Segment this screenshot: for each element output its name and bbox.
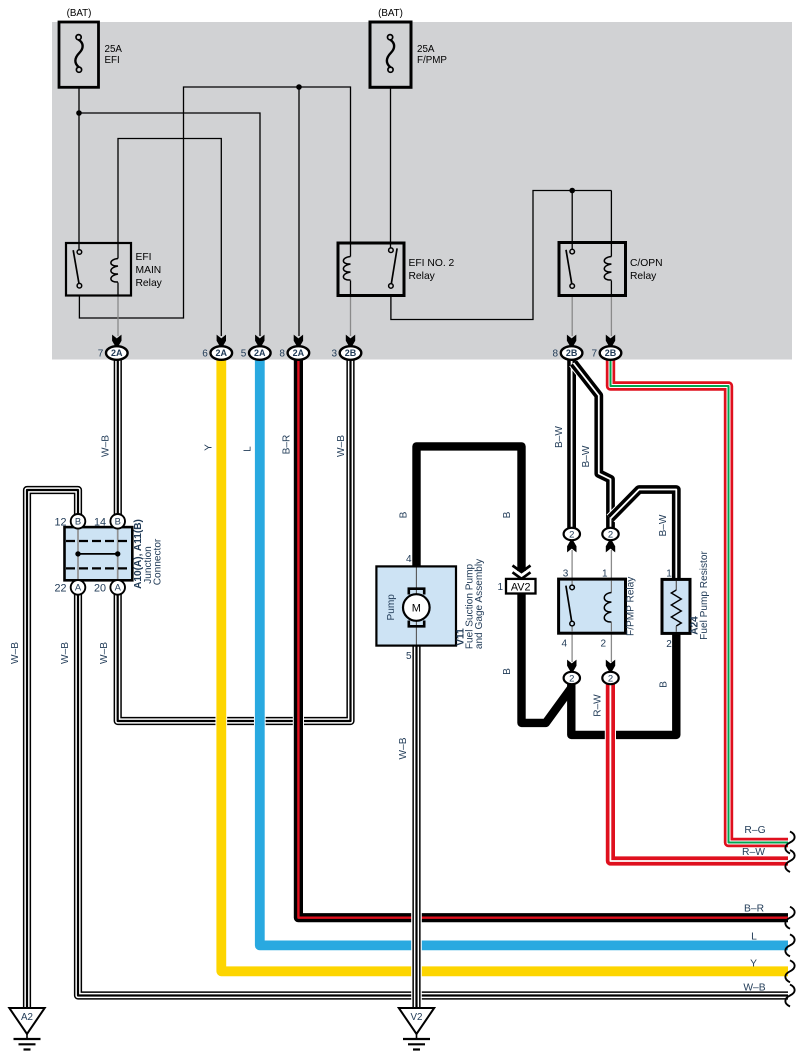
node C-OPN branch	[569, 188, 575, 194]
svg-text:R–G: R–G	[744, 825, 765, 836]
wire R-W from F/PMP relay pin 2	[610, 684, 788, 861]
svg-text:1: 1	[666, 569, 672, 580]
wire B from pump pin 4 to AV2	[417, 446, 522, 571]
svg-text:12: 12	[54, 517, 66, 529]
connector pin 7 2A (EFI MAIN out)	[98, 335, 128, 360]
wire-break symbol R-W	[785, 850, 794, 872]
fuse 25A EFI	[59, 22, 99, 87]
junction pin 22 A	[54, 580, 85, 595]
relay EFI MAIN	[66, 243, 163, 296]
wire EFI MAIN switch out loop to EFI NO.2 coil	[79, 87, 350, 318]
svg-text:R–W: R–W	[742, 847, 765, 858]
svg-text:B: B	[502, 511, 513, 518]
svg-text:EFI: EFI	[136, 252, 152, 263]
wire R-G from pin 7-2B	[611, 360, 789, 843]
svg-text:2A: 2A	[216, 348, 228, 358]
svg-text:W–B: W–B	[60, 642, 71, 664]
wire gray stub F/PMP pin 2 below	[610, 632, 612, 662]
svg-text:W–B: W–B	[100, 435, 111, 457]
wire gray stub F/PMP pin 4 below	[571, 632, 573, 662]
fuel pump assembly V11 box	[376, 566, 456, 645]
joint connector 2 (above F/PMP pin 1)	[602, 528, 618, 553]
svg-text:6: 6	[202, 349, 208, 360]
svg-text:V2: V2	[411, 1012, 423, 1023]
wire B from AV2 to joint below F/PMP relay pin 4	[522, 593, 572, 723]
V11 name label	[456, 558, 485, 649]
svg-text:B–W: B–W	[658, 514, 669, 536]
svg-text:C/OPN: C/OPN	[630, 258, 663, 269]
wire EFI NO.2 relay pin stub to 3-2B	[350, 296, 352, 337]
ground A2	[9, 1008, 44, 1050]
svg-text:EFI: EFI	[105, 55, 120, 66]
wire L from pin 5-2A	[260, 360, 788, 946]
svg-text:5: 5	[241, 349, 247, 360]
wire EFI NO.2 switch out to C-OPN feed	[391, 191, 612, 320]
wire B-R from pin 8-2A	[298, 360, 788, 918]
relay F/PMP	[559, 579, 626, 633]
wire B-W from 8-2B straight to F/PMP relay pin 3	[566, 360, 577, 529]
wire W-B from junction B12 to ground A2	[27, 490, 78, 1008]
wire-break symbol W-B	[785, 985, 794, 1007]
svg-text:2: 2	[569, 529, 574, 540]
wire W-B from pump pin 5 to ground V2	[411, 646, 422, 1008]
wire B from F/PMP relay pin 4 joint to resistor pin 2	[571, 633, 676, 735]
svg-text:Relay: Relay	[136, 278, 163, 289]
wire-break symbol Y	[785, 960, 794, 982]
svg-text:MAIN: MAIN	[136, 265, 162, 276]
svg-text:F/PMP Relay: F/PMP Relay	[626, 576, 637, 636]
svg-text:2A: 2A	[293, 348, 305, 358]
svg-text:and Gage Assembly: and Gage Assembly	[474, 558, 485, 649]
svg-text:B–W: B–W	[554, 426, 565, 448]
svg-text:EFI NO. 2: EFI NO. 2	[409, 258, 455, 269]
svg-text:8: 8	[553, 349, 559, 360]
A24 name label	[690, 551, 711, 640]
svg-text:Fuel Pump Resistor: Fuel Pump Resistor	[699, 551, 710, 640]
wire-break symbol B-R	[785, 907, 794, 929]
svg-text:B–W: B–W	[581, 445, 592, 467]
svg-text:Connector: Connector	[152, 538, 163, 585]
wire branch to pin 8-2A	[298, 87, 300, 336]
junction pin 20 A	[94, 580, 125, 595]
node EFI fuse branch	[76, 110, 82, 116]
connector pin 8 2A (battery feed 2)	[279, 335, 309, 360]
svg-text:14: 14	[94, 517, 106, 529]
wire EFI fuse to EFI MAIN relay switch	[78, 87, 80, 250]
svg-text:20: 20	[94, 583, 106, 595]
connector pin 3 2B (EFI NO.2 coil gnd)	[331, 335, 361, 360]
relay C/OPN	[559, 243, 663, 296]
wire C-OPN relay pin stub to 7-2B	[610, 296, 612, 337]
motor M symbol	[403, 589, 430, 627]
wire C-OPN switch feed	[571, 191, 573, 250]
svg-text:A: A	[115, 582, 122, 593]
junction connector name label	[133, 519, 164, 589]
joint connector 2 (above F/PMP pin 3)	[564, 528, 580, 553]
svg-text:(BAT): (BAT)	[378, 8, 403, 19]
svg-text:Relay: Relay	[630, 271, 657, 282]
wire-break symbol L	[785, 934, 794, 956]
svg-text:5: 5	[406, 651, 412, 662]
svg-text:2: 2	[569, 673, 574, 684]
junction pin 14 B	[94, 514, 125, 529]
connector pin 6 2A (to ECM +B)	[202, 335, 232, 360]
svg-text:W–B: W–B	[398, 737, 409, 759]
svg-text:1: 1	[497, 582, 503, 593]
svg-text:2B: 2B	[605, 348, 617, 358]
svg-text:M: M	[412, 603, 421, 615]
svg-text:3: 3	[331, 349, 337, 360]
svg-text:2B: 2B	[566, 348, 578, 358]
joint connector 2 (below F/PMP pin 4)	[564, 660, 580, 685]
svg-text:AV2: AV2	[511, 581, 531, 593]
svg-text:L: L	[751, 932, 757, 943]
svg-text:W–B: W–B	[336, 435, 347, 457]
ground V2	[399, 1008, 434, 1050]
fuse 25A F/PMP	[370, 22, 411, 87]
wire EFI fuse junction to pin 5-2A feed	[79, 113, 260, 336]
wire W-B ground bus from junction A22	[78, 594, 788, 996]
connector AV2	[497, 566, 535, 594]
svg-text:B: B	[75, 516, 81, 527]
wire F-PMP fuse to EFI NO.2 relay switch	[390, 87, 392, 248]
connector pin 5 2A (battery feed)	[241, 335, 271, 360]
junction connector A10(A), A11(B)	[65, 527, 133, 580]
svg-text:Relay: Relay	[409, 271, 436, 282]
svg-text:B: B	[115, 516, 121, 527]
svg-text:L: L	[242, 446, 253, 452]
node pin 8-2A branch	[296, 84, 302, 90]
svg-text:2: 2	[600, 639, 606, 650]
svg-text:A2: A2	[21, 1012, 33, 1023]
svg-text:Pump: Pump	[386, 594, 397, 621]
wire EFI MAIN coil to pin 6-2A feed	[118, 139, 221, 337]
wire gray stub F/PMP pin 3 above	[571, 550, 573, 580]
wire EFI MAIN relay pin stub to 7-2A	[117, 296, 119, 337]
svg-text:7: 7	[591, 349, 597, 360]
svg-text:8: 8	[279, 349, 285, 360]
wire W-B from pin 7-2A to junction B14	[113, 360, 124, 515]
resistor A24	[662, 579, 690, 633]
svg-text:B–R: B–R	[744, 904, 764, 915]
svg-text:A: A	[75, 582, 82, 593]
wire C-OPN coil feed	[610, 191, 612, 244]
svg-text:B: B	[502, 668, 513, 675]
power supply block background	[52, 22, 792, 360]
svg-text:2A: 2A	[111, 348, 123, 358]
wire Y from pin 6-2A	[221, 360, 788, 972]
F/PMP pin labels	[561, 569, 608, 650]
svg-text:2: 2	[666, 639, 672, 650]
svg-text:B: B	[398, 511, 409, 518]
svg-text:Y: Y	[750, 959, 757, 970]
A24 pin labels	[666, 569, 672, 651]
svg-text:2: 2	[608, 529, 613, 540]
wire W-B from junction A20 to pin 3-2B	[118, 360, 351, 722]
svg-text:1: 1	[602, 569, 608, 580]
svg-text:4: 4	[406, 554, 412, 565]
svg-text:2: 2	[608, 673, 613, 684]
svg-text:22: 22	[54, 583, 66, 595]
svg-text:4: 4	[561, 639, 567, 650]
wire gray stub F/PMP pin 1 above	[610, 550, 612, 580]
svg-text:2B: 2B	[345, 348, 357, 358]
connector pin 7 2B (C/OPN coil)	[591, 335, 621, 360]
svg-text:2A: 2A	[254, 348, 266, 358]
svg-text:F/PMP: F/PMP	[417, 55, 447, 66]
svg-text:W–B: W–B	[99, 642, 110, 664]
connector pin 8 2B (C/OPN out)	[553, 335, 583, 360]
svg-text:25A: 25A	[105, 44, 123, 55]
svg-text:B–R: B–R	[281, 435, 292, 455]
junction pin 12 B	[54, 514, 85, 529]
svg-text:(BAT): (BAT)	[67, 8, 92, 19]
wire B-W branch to fuel pump resistor	[611, 490, 677, 580]
svg-text:7: 7	[98, 349, 104, 360]
svg-text:W–B: W–B	[743, 983, 765, 994]
svg-text:W–B: W–B	[10, 642, 21, 664]
wire-break symbol R-G	[785, 832, 794, 854]
wire B-W from 8-2B branched to F/PMP relay pin 1	[574, 363, 611, 528]
svg-text:B: B	[658, 681, 669, 688]
svg-text:R–W: R–W	[593, 694, 604, 717]
svg-text:3: 3	[563, 569, 569, 580]
joint connector 2 (below F/PMP pin 2)	[602, 660, 618, 685]
svg-text:25A: 25A	[417, 44, 435, 55]
svg-text:Y: Y	[203, 444, 214, 451]
relay EFI NO. 2	[338, 243, 455, 296]
wire C-OPN relay pin stub to 8-2B	[571, 296, 573, 337]
